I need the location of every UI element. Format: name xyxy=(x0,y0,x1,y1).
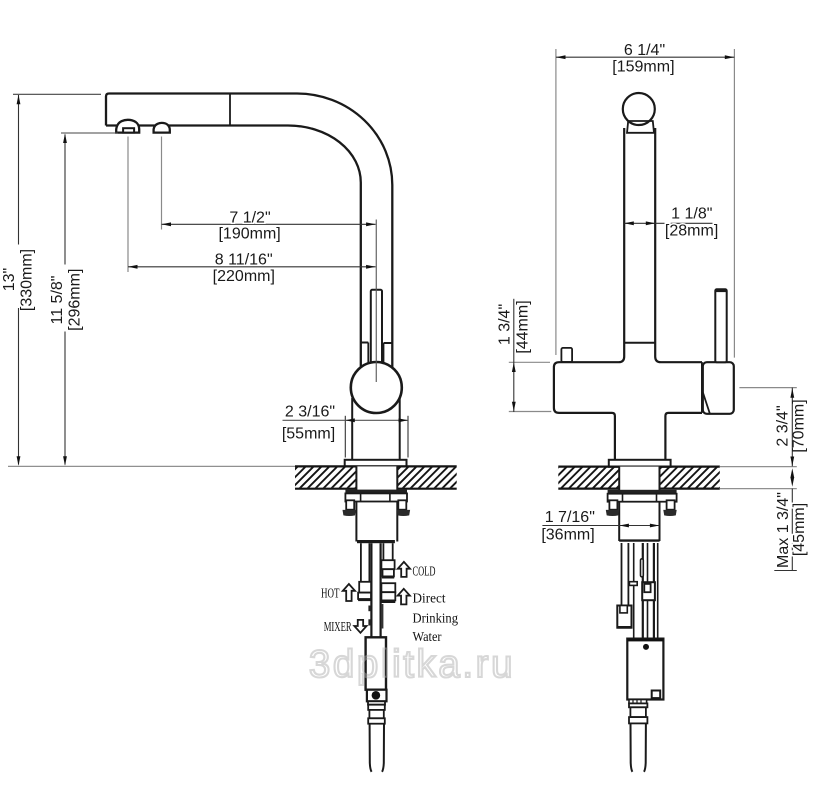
svg-text:11 5/8": 11 5/8" xyxy=(49,276,66,325)
svg-text:3dplitka.ru: 3dplitka.ru xyxy=(309,643,515,686)
svg-text:[44mm]: [44mm] xyxy=(514,300,531,353)
svg-text:[330mm]: [330mm] xyxy=(18,249,35,311)
svg-text:Direct: Direct xyxy=(413,592,446,607)
svg-text:Drinking: Drinking xyxy=(413,612,459,627)
svg-text:6 1/4": 6 1/4" xyxy=(624,42,665,59)
svg-text:[220mm]: [220mm] xyxy=(213,268,275,285)
svg-text:2 3/16": 2 3/16" xyxy=(285,404,335,421)
svg-text:1 3/4": 1 3/4" xyxy=(496,304,513,345)
svg-text:13": 13" xyxy=(1,268,18,291)
svg-text:1 1/8": 1 1/8" xyxy=(671,205,712,222)
svg-text:Max 1 3/4": Max 1 3/4" xyxy=(775,492,792,568)
svg-text:1 7/16": 1 7/16" xyxy=(545,509,595,526)
svg-text:[45mm]: [45mm] xyxy=(791,503,808,556)
svg-text:8 11/16": 8 11/16" xyxy=(215,251,273,268)
svg-text:MIXER: MIXER xyxy=(324,620,352,635)
svg-text:[55mm]: [55mm] xyxy=(282,426,335,443)
svg-text:HOT: HOT xyxy=(321,587,340,602)
svg-text:[296mm]: [296mm] xyxy=(66,269,83,331)
svg-text:[36mm]: [36mm] xyxy=(541,527,594,544)
svg-text:[28mm]: [28mm] xyxy=(665,223,718,240)
svg-text:7 1/2": 7 1/2" xyxy=(229,210,270,227)
svg-text:[70mm]: [70mm] xyxy=(791,399,808,452)
svg-text:COLD: COLD xyxy=(413,564,436,579)
svg-text:[159mm]: [159mm] xyxy=(612,59,674,76)
svg-text:[190mm]: [190mm] xyxy=(218,226,280,243)
svg-text:2 3/4": 2 3/4" xyxy=(775,405,792,446)
